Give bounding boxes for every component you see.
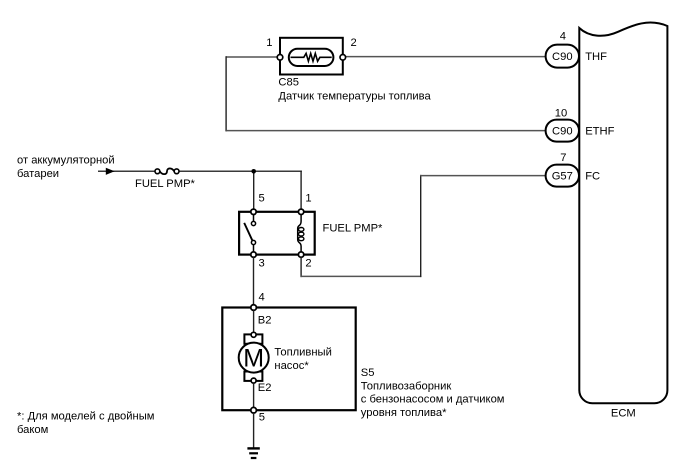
svg-text:насос*: насос* — [274, 360, 309, 372]
svg-text:2: 2 — [305, 258, 311, 270]
wire from sensor pin1 down-left to ETHF C90 — [226, 56, 277, 58]
relay coil — [298, 215, 304, 253]
relay terminal 3 — [251, 252, 256, 257]
relay terminal 5 — [251, 209, 256, 214]
svg-text:10: 10 — [555, 108, 567, 120]
relay terminal 1 — [298, 209, 303, 214]
fuse FUEL PMP* — [155, 168, 179, 174]
svg-text:E2: E2 — [258, 382, 272, 394]
svg-text:C85: C85 — [278, 76, 299, 88]
svg-text:Датчик температуры топлива: Датчик температуры топлива — [278, 91, 431, 103]
svg-text:с бензонасосом и датчиком: с бензонасосом и датчиком — [361, 394, 505, 406]
sensor terminal 1 — [277, 55, 283, 61]
wire from battery feed to relay — [98, 170, 155, 172]
connector C90 pin 10 — [546, 120, 579, 142]
svg-text:1: 1 — [266, 37, 272, 49]
connector C90 pin 4 — [546, 45, 579, 68]
sensor C85 box — [280, 38, 343, 75]
motor M (fuel pump) — [239, 332, 269, 383]
svg-text:батареи: батареи — [17, 168, 59, 180]
svg-text:S5: S5 — [361, 367, 375, 379]
svg-text:Топливный: Топливный — [274, 346, 331, 358]
svg-text:B2: B2 — [258, 315, 272, 327]
svg-text:1: 1 — [305, 192, 311, 204]
wire relay pin2 to ECM FC — [300, 257, 302, 277]
relay switch contact — [253, 214, 255, 223]
svg-text:THF: THF — [585, 51, 607, 63]
pump unit S5 box — [222, 308, 355, 411]
relay FUEL PMP* box — [239, 212, 315, 255]
svg-text:3: 3 — [259, 258, 265, 270]
pump box top terminal — [251, 305, 257, 311]
resistor zigzag inside pill — [291, 53, 332, 61]
svg-text:G57: G57 — [552, 171, 573, 183]
pump box bottom terminal — [251, 407, 257, 413]
svg-text:FUEL PMP*: FUEL PMP* — [135, 178, 196, 190]
sensor terminal 2 — [340, 55, 346, 61]
wire B2 to motor — [253, 310, 255, 333]
svg-text:баком: баком — [17, 424, 48, 436]
svg-text:C90: C90 — [552, 126, 573, 138]
svg-text:5: 5 — [259, 192, 265, 204]
wire E2 to box bottom — [253, 383, 255, 407]
svg-text:FC: FC — [585, 171, 600, 183]
svg-text:уровня топлива*: уровня топлива* — [361, 407, 447, 419]
arrow battery feed — [106, 168, 115, 175]
svg-text:Топливозаборник: Топливозаборник — [361, 380, 452, 392]
svg-text:4: 4 — [560, 31, 566, 43]
svg-text:ECM: ECM — [611, 408, 636, 420]
ground — [247, 448, 259, 458]
connector G57 pin 7 — [546, 165, 579, 187]
ECM body — [579, 23, 667, 404]
svg-text:4: 4 — [259, 292, 265, 304]
svg-text:ETHF: ETHF — [585, 126, 614, 138]
wire relay pin3 to pump box — [253, 257, 255, 304]
sensor thermistor pill — [289, 49, 334, 66]
svg-text:от аккумуляторной: от аккумуляторной — [17, 155, 115, 167]
svg-text:FUEL PMP*: FUEL PMP* — [323, 223, 384, 235]
svg-text:5: 5 — [259, 412, 265, 424]
svg-text:*: Для моделей с двойным: *: Для моделей с двойным — [17, 411, 154, 423]
svg-text:M: M — [243, 345, 264, 373]
relay terminal 2 — [298, 252, 303, 257]
svg-text:7: 7 — [560, 152, 566, 164]
wire THF: sensor pin2 to C90 — [345, 56, 547, 58]
node junction above relay pin 5 — [251, 169, 256, 174]
svg-text:C90: C90 — [552, 51, 573, 63]
wire to ground — [253, 413, 255, 448]
svg-text:2: 2 — [351, 37, 357, 49]
